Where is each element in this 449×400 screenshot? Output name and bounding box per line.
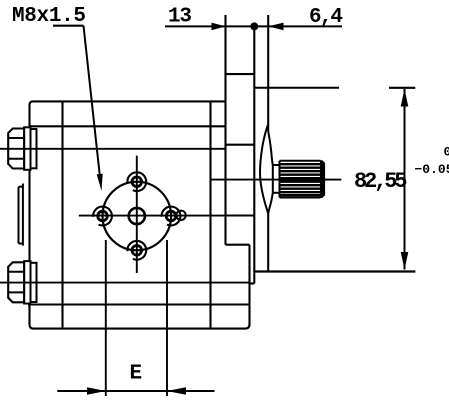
rear plate right edge B x=254.3 <box>253 26 255 283</box>
shaft collar right upper curve <box>268 131 273 165</box>
dim 13/6,4 line <box>165 25 342 27</box>
rear plate left edge A x=225.5 (also 13-dim extension) <box>224 15 226 245</box>
step vertical right x=249.5 <box>248 245 250 325</box>
dim E extension left <box>105 240 107 396</box>
spline end cap <box>321 161 325 198</box>
bolt B1 seat <box>31 129 37 168</box>
spline block bottom edge <box>280 197 321 199</box>
svg-text:M8x1.5: M8x1.5 <box>12 5 86 28</box>
dim 82,55 bottom extension <box>254 270 415 272</box>
dim 82,55 top tick <box>389 87 415 89</box>
top boss internal line <box>226 73 255 75</box>
pattern horizontal centerline <box>79 215 226 217</box>
spline block left edge <box>279 161 281 198</box>
shaft collar left curve <box>260 126 268 214</box>
dim 82,55 arrow up <box>401 89 409 107</box>
shaft neck top <box>273 164 280 166</box>
svg-text:82,55: 82,55 <box>354 169 408 194</box>
dim arrow left-pointing at C <box>268 23 283 31</box>
shaft collar right lower curve <box>268 193 273 214</box>
step horizontal at y=244.7 <box>226 244 250 246</box>
rear plate internal line y=215.5 <box>226 214 255 216</box>
port boss edge line <box>22 184 24 246</box>
body second top line <box>30 125 226 127</box>
bolt circle <box>103 182 172 251</box>
bolt B1 facets <box>8 137 24 139</box>
shaft centerline <box>211 179 342 181</box>
dim E arrow left-pointing <box>167 387 186 395</box>
shaft collar right face <box>272 165 274 193</box>
leader underline M8x1.5 <box>53 25 84 27</box>
port boss ticks <box>19 186 23 188</box>
body/rear seam x=210.5 <box>209 101 211 328</box>
threaded hole top <box>127 172 146 191</box>
threaded hole right <box>162 207 181 226</box>
dim 82,55 top extension <box>254 87 340 89</box>
leader arrowhead <box>97 174 103 191</box>
shaft neck bottom <box>273 192 280 194</box>
axis centerline lower gear <box>0 282 250 284</box>
body bottom line <box>28 303 250 305</box>
bolt B2 facets <box>8 271 24 273</box>
bearing carrier edge C upper x=268.2 <box>267 15 269 131</box>
svg-text:−0.05: −0.05 <box>415 162 449 177</box>
B bottom step <box>250 282 255 284</box>
spline block top edge <box>280 160 321 162</box>
bolt B2 seat <box>31 263 37 302</box>
dowel pin hole <box>176 211 185 220</box>
svg-text:0: 0 <box>444 145 449 160</box>
dim node dot at B <box>250 22 258 30</box>
bolt B1 collar <box>24 127 30 170</box>
bolt B2 collar <box>24 261 30 303</box>
foot bottom line <box>33 324 250 328</box>
svg-text:E: E <box>130 363 143 386</box>
dim E arrow right-pointing <box>87 387 106 395</box>
svg-text:13: 13 <box>168 6 192 29</box>
dim 82,55 vertical line <box>404 89 406 270</box>
dim 82,55 arrow down <box>401 252 409 270</box>
rear plate internal line y=144.7 <box>226 144 255 146</box>
port boss face <box>18 187 20 244</box>
bearing carrier edge C lower <box>267 214 269 272</box>
flange/body seam x=62.5 <box>61 101 63 328</box>
dim arrow right-pointing at A <box>212 23 226 31</box>
center hole <box>129 208 145 224</box>
threaded hole bottom <box>127 241 146 260</box>
svg-text:6,4: 6,4 <box>309 6 343 29</box>
spline teeth lines <box>280 164 321 195</box>
bolt B2 head <box>8 262 24 302</box>
dim E extension right <box>166 240 168 396</box>
flange left edge <box>30 104 34 329</box>
axis centerline upper gear <box>0 148 226 150</box>
pump body top edge <box>30 101 226 105</box>
pattern vertical centerline <box>136 156 138 273</box>
dim E line <box>57 390 214 392</box>
threaded hole left <box>93 207 112 226</box>
bolt B1 head <box>8 129 24 169</box>
leader line <box>84 26 100 177</box>
